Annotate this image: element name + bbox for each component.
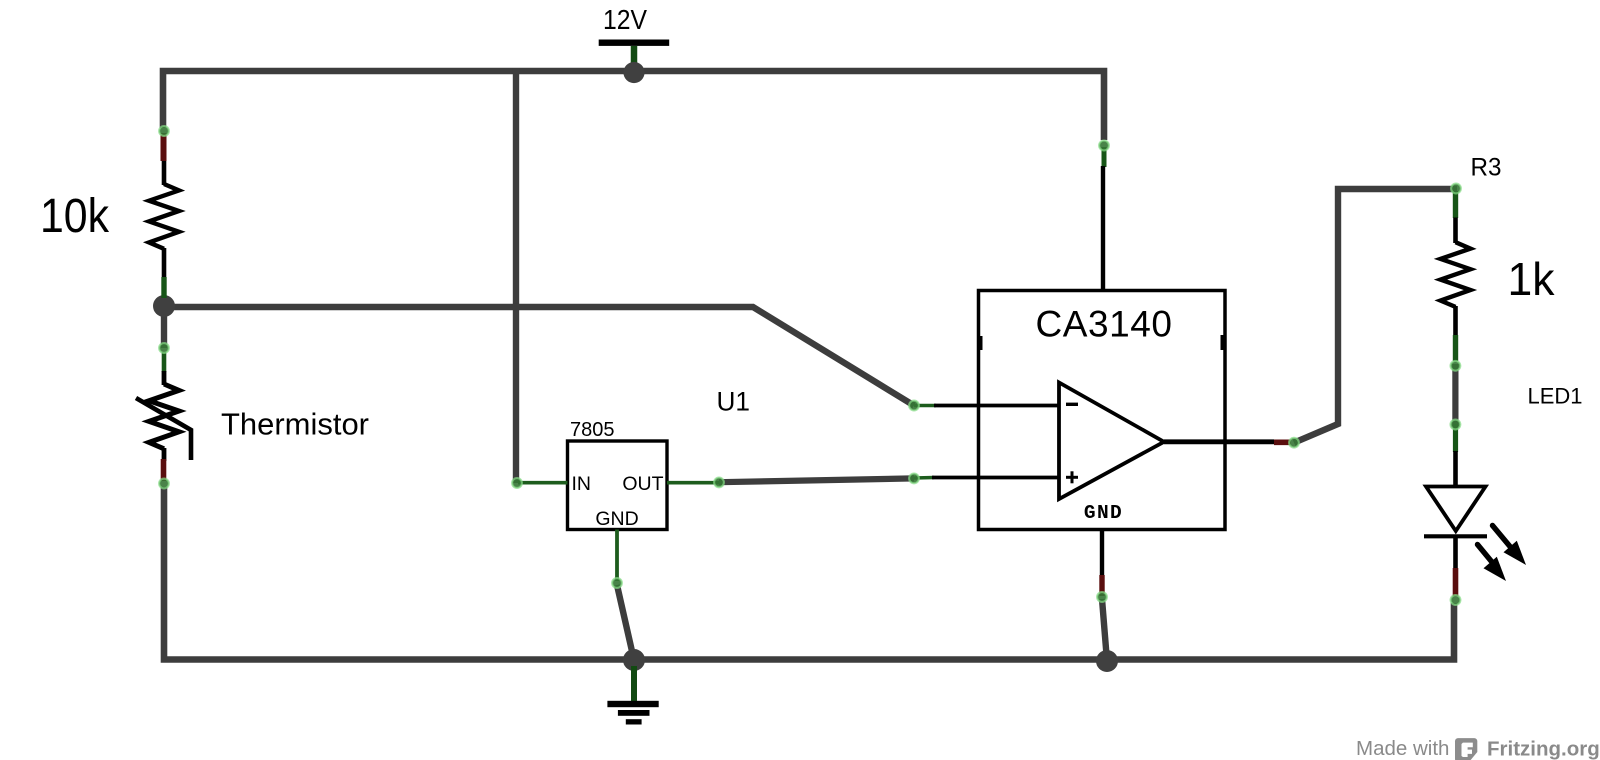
node opamp-gnd junction dot on bottom rail: [1096, 650, 1118, 672]
regulator U2 7805 box: [518, 441, 719, 581]
svg-text:Thermistor: Thermistor: [221, 407, 369, 442]
pin dot thermistor bottom: [159, 479, 169, 489]
svg-text:Fritzing.org: Fritzing.org: [1487, 738, 1600, 760]
LED arrow 1: [1493, 526, 1527, 566]
pin leg green top: [1453, 191, 1458, 218]
thermistor diagonal strike: [136, 398, 191, 460]
svg-text:GND: GND: [1084, 502, 1123, 524]
pin leg green bottom: [1453, 335, 1458, 361]
svg-text:7805: 7805: [570, 419, 615, 441]
node A junction dot (10k/thermistor/minus wire): [153, 295, 175, 317]
svg-text:12V: 12V: [603, 4, 648, 35]
wire 12V rail drop at x=516 down to 7805 IN: [513, 68, 519, 483]
LED1 diode: [1424, 424, 1526, 596]
pin dot opamp GND: [1097, 592, 1107, 602]
op-amp U1 CA3140 box: [979, 291, 1226, 530]
wire opamp output up and right to R3 top: [1294, 189, 1457, 443]
pin dot opamp minus: [909, 401, 919, 411]
pin IN leg: [518, 481, 568, 485]
power symbol 12V: [599, 40, 670, 65]
pin OUT leg: [667, 481, 719, 485]
svg-text:R3: R3: [1471, 154, 1502, 182]
cathode bar: [1424, 534, 1487, 538]
resistor R3 1k: [1441, 191, 1471, 361]
thermistor: [136, 352, 191, 481]
pin leg green top: [162, 352, 167, 372]
V+ pin line of opamp: [1103, 147, 1104, 292]
ground symbol: [607, 666, 658, 725]
pin dot thermistor top: [159, 343, 169, 353]
plus sign: [1066, 471, 1078, 483]
plus input pin line: [914, 476, 1059, 480]
wire bottom rail: thermistor bottom, down, across to LED bottom: [164, 487, 1454, 660]
triangle: [1426, 487, 1486, 532]
pin dot 10k top: [159, 126, 169, 136]
pin dot 7805 GND: [612, 578, 622, 588]
pin leg green bottom: [161, 277, 166, 298]
pin dot LED bottom: [1451, 595, 1461, 605]
minus input pin line: [914, 404, 1059, 408]
pin dot 7805 IN: [512, 478, 522, 488]
svg-text:Made with: Made with: [1356, 737, 1449, 760]
wire 7805 OUT to opamp plus input: [719, 478, 914, 482]
pin dot 7805 OUT: [714, 478, 724, 488]
pin stub left: [979, 336, 983, 350]
svg-text:1k: 1k: [1508, 253, 1556, 305]
resistor R1 10k: [149, 133, 179, 298]
svg-text:LED1: LED1: [1528, 384, 1583, 409]
pin GND leg: [615, 530, 619, 582]
pin dot opamp V+: [1099, 141, 1109, 151]
wire below node A to thermistor top: [161, 300, 167, 348]
LED arrow 2: [1478, 545, 1507, 582]
svg-text:10k: 10k: [40, 190, 110, 243]
pin leg red bottom (cathode): [1453, 568, 1459, 596]
wire 7805 GND to ground node: [617, 585, 634, 660]
minus sign: [1066, 403, 1078, 406]
GND pin line of opamp: [1100, 530, 1104, 597]
pin leg red bottom: [161, 459, 167, 481]
op-amp triangle: [1059, 383, 1164, 500]
wire R3 bottom to LED anode: [1452, 364, 1458, 426]
wire top rail from left corner to opamp V+ corner: [163, 71, 1104, 140]
svg-text:IN: IN: [572, 473, 592, 495]
output pin line of opamp: [1164, 439, 1291, 444]
pin dot opamp output: [1289, 438, 1299, 448]
pin dot LED top: [1451, 420, 1461, 430]
pin leg green top (anode): [1453, 424, 1458, 452]
svg-text:OUT: OUT: [622, 473, 663, 495]
node ground junction dot on bottom rail: [623, 649, 645, 671]
wire opamp GND pin to bottom rail node: [1102, 599, 1107, 661]
pin dot 1k bottom: [1451, 361, 1461, 371]
pin dot 1k top: [1451, 184, 1461, 194]
pin stub right: [1221, 335, 1225, 350]
pin dot opamp plus: [909, 474, 919, 484]
node 12V junction dot on top rail: [623, 62, 644, 83]
svg-text:U1: U1: [717, 387, 751, 417]
Fritzing logo: [1455, 738, 1477, 760]
svg-text:GND: GND: [595, 508, 638, 530]
wire junction A to minus-input (horizontal then diagonal): [164, 307, 914, 406]
svg-text:CA3140: CA3140: [1036, 304, 1173, 345]
pin leg red top: [161, 133, 167, 161]
